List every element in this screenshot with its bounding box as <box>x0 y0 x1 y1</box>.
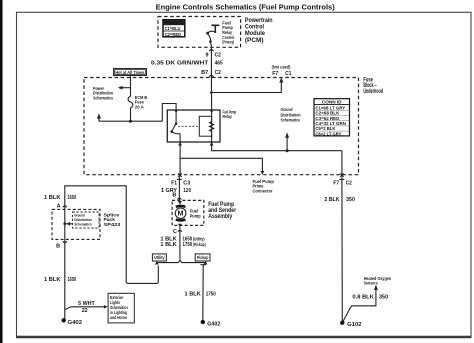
svg-text:(Pickup): (Pickup) <box>193 242 206 247</box>
svg-text:C2: C2 <box>346 181 352 187</box>
svg-text:1750: 1750 <box>183 242 193 248</box>
svg-text:C2=RED: C2=RED <box>165 32 182 37</box>
svg-text:F1: F1 <box>171 181 177 187</box>
svg-text:G102: G102 <box>347 322 361 328</box>
svg-text:C6=2 LT GRY: C6=2 LT GRY <box>315 131 341 136</box>
svg-text:Assembly: Assembly <box>208 213 232 220</box>
svg-text:C: C <box>173 229 177 235</box>
svg-text:0.35 DK GRN/WHT: 0.35 DK GRN/WHT <box>151 60 209 66</box>
svg-text:Hot at All Times: Hot at All Times <box>115 70 144 75</box>
svg-text:Schematics: Schematics <box>281 118 301 123</box>
svg-text:1 BLK: 1 BLK <box>44 195 61 201</box>
svg-text:G402: G402 <box>68 320 83 326</box>
svg-text:1750: 1750 <box>206 291 216 297</box>
svg-text:(Utility): (Utility) <box>193 236 205 241</box>
svg-text:C1=BLU: C1=BLU <box>165 26 181 31</box>
svg-text:2 BLK: 2 BLK <box>324 197 339 203</box>
svg-text:350: 350 <box>346 197 355 203</box>
svg-text:SP423: SP423 <box>104 222 121 227</box>
svg-text:Schematics: Schematics <box>74 221 92 226</box>
svg-text:F7: F7 <box>333 181 339 187</box>
svg-text:F7: F7 <box>272 71 278 77</box>
svg-text:(Not used): (Not used) <box>272 65 291 70</box>
svg-text:Schematics: Schematics <box>93 95 113 100</box>
svg-text:C2: C2 <box>215 70 221 76</box>
svg-text:465: 465 <box>215 60 223 66</box>
svg-text:Pickup: Pickup <box>197 255 209 260</box>
svg-text:B: B <box>56 243 60 249</box>
svg-text:9: 9 <box>206 53 209 59</box>
svg-text:1 BLK: 1 BLK <box>185 291 201 297</box>
svg-text:350: 350 <box>379 294 388 300</box>
svg-text:0.8 BLK: 0.8 BLK <box>352 294 374 300</box>
svg-text:and Horns: and Horns <box>110 315 128 320</box>
svg-text:B7: B7 <box>201 70 208 76</box>
svg-text:1 BLK: 1 BLK <box>44 277 61 283</box>
svg-text:20 A: 20 A <box>135 104 145 109</box>
svg-text:1650: 1650 <box>68 277 77 283</box>
svg-text:(PCM): (PCM) <box>245 37 264 44</box>
svg-text:M: M <box>178 211 184 218</box>
svg-text:22: 22 <box>82 308 88 314</box>
svg-text:C1: C1 <box>285 71 291 77</box>
svg-text:Pump: Pump <box>190 213 201 218</box>
svg-text:(Primary): (Primary) <box>222 40 234 45</box>
svg-text:120: 120 <box>183 188 191 194</box>
svg-text:A: A <box>57 204 61 210</box>
svg-text:Connector: Connector <box>253 188 273 193</box>
svg-text:B: B <box>172 193 176 199</box>
svg-text:5 WHT: 5 WHT <box>78 301 95 307</box>
svg-text:G402: G402 <box>207 321 220 327</box>
svg-text:C3: C3 <box>183 181 190 187</box>
svg-text:1650: 1650 <box>68 195 77 201</box>
svg-text:Engine Controls Schematics (Fu: Engine Controls Schematics (Fuel Pump Co… <box>156 2 336 11</box>
svg-text:Utility: Utility <box>154 255 165 260</box>
svg-text:C2: C2 <box>215 53 221 59</box>
svg-text:CONN ID: CONN ID <box>165 20 183 25</box>
svg-text:Underhood: Underhood <box>363 89 383 95</box>
svg-text:Relay: Relay <box>223 114 233 119</box>
svg-text:1 BLK: 1 BLK <box>160 242 176 248</box>
svg-text:Sensors: Sensors <box>364 281 378 286</box>
